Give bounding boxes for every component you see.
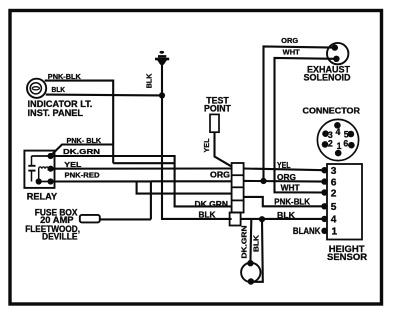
relay K1 (24, 151, 54, 188)
compressor solenoid bottom (241, 263, 260, 282)
svg-text:INST. PANEL: INST. PANEL (28, 108, 84, 118)
svg-text:ORG: ORG (281, 36, 298, 45)
fuse F1 (80, 215, 100, 223)
wire BLK to pin4 (241, 218, 324, 220)
exhaust solenoid (327, 43, 348, 64)
height sensor box (327, 164, 362, 240)
wire YEL test point (215, 132, 232, 166)
svg-text:4: 4 (331, 215, 337, 226)
wire relay internal top (32, 155, 51, 157)
svg-text:BLK: BLK (199, 211, 216, 220)
svg-text:6: 6 (343, 138, 348, 148)
svg-text:PNK-RED: PNK-RED (65, 171, 100, 180)
svg-text:DK.GRN: DK.GRN (239, 225, 248, 258)
svg-text:WHT: WHT (281, 183, 301, 193)
svg-text:BLK: BLK (145, 73, 154, 89)
wire PNK-BLK to connector (113, 162, 175, 164)
wire ORG to pin6 (244, 180, 324, 183)
wire BLK indicator (46, 94, 162, 97)
pin numbers (331, 166, 338, 238)
connector strip (230, 163, 244, 226)
svg-text:5: 5 (331, 202, 337, 213)
ground G1 (155, 51, 169, 65)
svg-text:BLK: BLK (277, 210, 295, 220)
svg-text:3: 3 (331, 166, 337, 177)
svg-text:DK.GRN: DK.GRN (63, 147, 100, 156)
pins height sensor (321, 167, 327, 234)
wire relay internal bottom (39, 181, 51, 183)
svg-text:RELAY: RELAY (27, 192, 57, 202)
wire BLK down (251, 219, 263, 282)
svg-text:ORG: ORG (277, 172, 296, 182)
wire fuse (100, 218, 151, 220)
indicator lamp IL (27, 79, 46, 98)
svg-text:YEL: YEL (64, 160, 82, 169)
wire fuse riser (150, 181, 152, 219)
wire PNK-BLK relay diagonal (51, 145, 114, 156)
svg-text:WHT: WHT (283, 48, 300, 57)
wire BLK ground vertical (162, 63, 232, 219)
wire branch to cell3 (137, 181, 232, 193)
wire PNK-BLK indicator (45, 81, 114, 164)
svg-text:BLK: BLK (52, 85, 66, 94)
wire DK GRN relay (51, 156, 232, 206)
svg-text:POINT: POINT (204, 103, 232, 113)
svg-text:SOLENOID: SOLENOID (303, 73, 351, 83)
wire YEL relay (51, 167, 232, 169)
svg-text:DK GRN: DK GRN (195, 199, 229, 209)
svg-text:PNK- BLK: PNK- BLK (67, 136, 102, 145)
svg-text:DEVILLE: DEVILLE (42, 231, 78, 241)
svg-text:YEL: YEL (277, 160, 291, 170)
svg-text:6: 6 (331, 177, 337, 188)
wire PNK-RED relay (51, 180, 151, 182)
svg-text:SENSOR: SENSOR (327, 252, 367, 263)
svg-text:CONNECTOR: CONNECTOR (303, 107, 361, 116)
svg-text:2: 2 (331, 188, 337, 199)
svg-text:PNK-BLK: PNK-BLK (274, 197, 310, 207)
wire PNK-BLK to pin5 (244, 197, 324, 206)
svg-text:YEL: YEL (202, 138, 211, 153)
svg-text:ORG: ORG (210, 171, 230, 180)
wire ORG solenoid (264, 46, 335, 181)
svg-text:PNK-BLK: PNK-BLK (48, 72, 82, 81)
svg-text:4: 4 (336, 127, 341, 137)
wire WHT solenoid (275, 58, 336, 193)
svg-text:2: 2 (328, 139, 333, 149)
node BLK junction (159, 92, 165, 98)
wire YEL to pin3 (244, 169, 324, 171)
wire DK GRN down (249, 220, 252, 263)
wire ORG into connector (151, 180, 232, 182)
svg-text:BLANK: BLANK (293, 226, 321, 236)
svg-text:BLK: BLK (251, 234, 260, 252)
svg-text:1: 1 (337, 141, 342, 151)
svg-text:1: 1 (332, 227, 338, 238)
